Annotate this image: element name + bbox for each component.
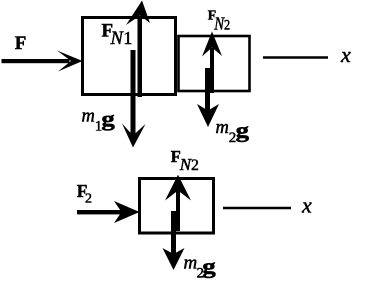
svg-text:N1: N1 — [110, 28, 133, 49]
normal force FN2 arrow top — [202, 32, 222, 94]
x axis line bottom — [223, 207, 291, 210]
weight m2g label top — [216, 118, 250, 146]
weight m1g label — [82, 107, 116, 135]
normal force FN2 arrow bottom — [165, 175, 191, 231]
svg-text:m: m — [216, 118, 229, 138]
svg-text:m: m — [82, 107, 95, 127]
normal force FN2 label top — [208, 7, 231, 33]
block m1 box — [83, 18, 176, 95]
svg-text:N2: N2 — [213, 13, 230, 34]
svg-text:x: x — [301, 193, 312, 218]
svg-text:2: 2 — [85, 191, 92, 206]
weight m2g label bottom — [184, 252, 217, 281]
svg-text:N2: N2 — [179, 155, 199, 174]
block m2 box bottom — [140, 179, 214, 234]
svg-text:g: g — [101, 107, 115, 131]
svg-text:g: g — [202, 254, 216, 278]
weight m2g arrow top — [197, 68, 219, 127]
force F arrow — [2, 51, 83, 72]
weight m2g arrow bottom — [163, 211, 185, 270]
normal force FN1 arrow — [126, 1, 150, 98]
svg-text:g: g — [236, 119, 250, 143]
block m2 box — [179, 36, 250, 91]
svg-text:F: F — [15, 33, 27, 54]
force F2 arrow — [77, 201, 140, 223]
svg-text:m: m — [184, 252, 198, 273]
weight m1g arrow — [122, 50, 146, 148]
normal force FN2 label bottom — [171, 147, 199, 174]
svg-text:x: x — [340, 42, 351, 67]
x axis line top — [263, 56, 328, 59]
normal force FN1 label — [102, 20, 133, 49]
